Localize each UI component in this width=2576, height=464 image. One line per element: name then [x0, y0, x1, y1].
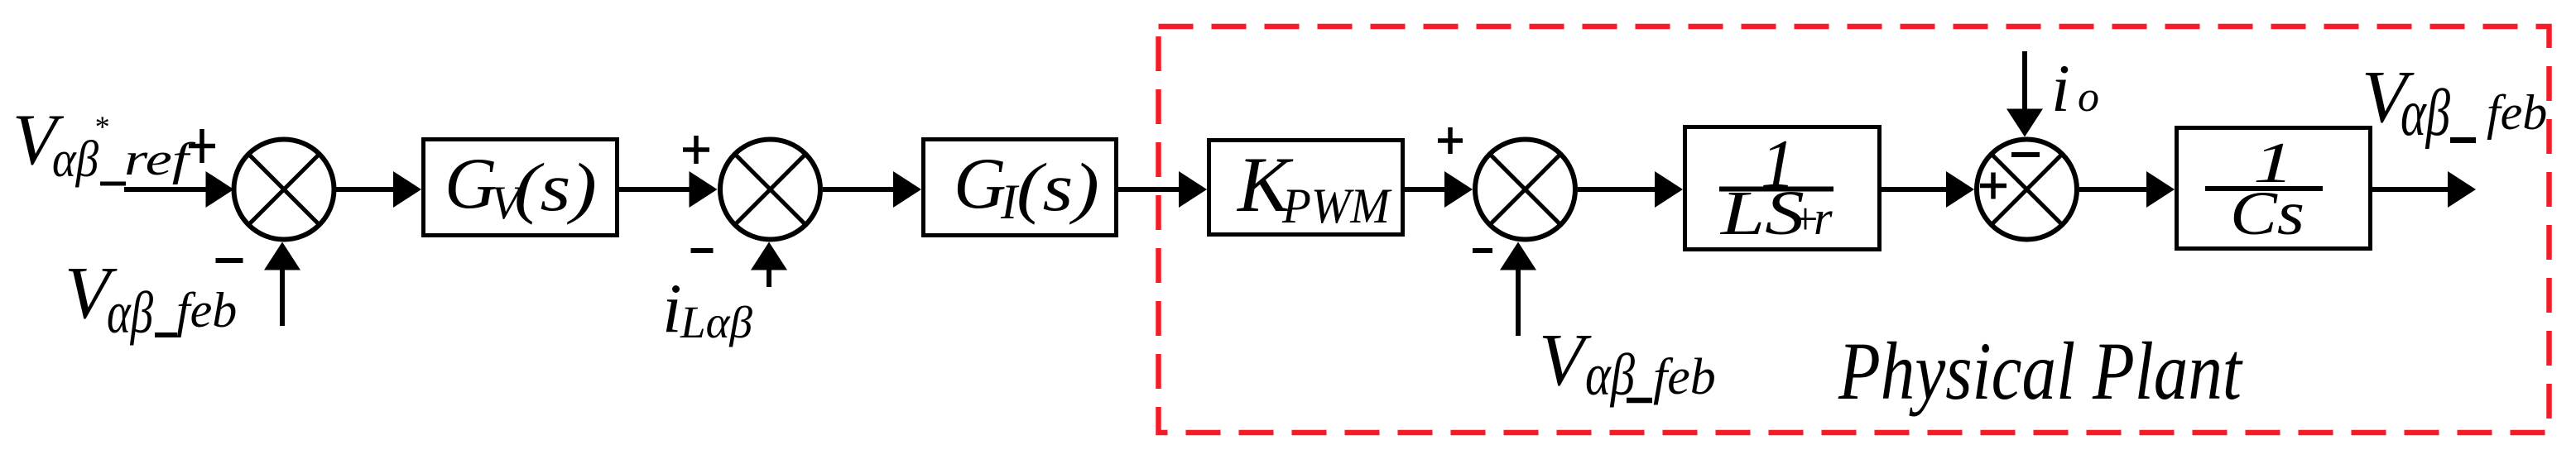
minus sign at summing junction 3 — [1473, 248, 1492, 253]
plus sign at summing junction 3 — [1438, 138, 1463, 143]
node io label — [2051, 50, 2099, 126]
svg-text:PWM: PWM — [1281, 179, 1392, 233]
svg-text:Physical Plant: Physical Plant — [1838, 325, 2243, 417]
svg-text:αβ: αβ — [2401, 77, 2450, 150]
svg-text:(s): (s) — [514, 149, 597, 225]
svg-text:i: i — [2051, 50, 2070, 126]
svg-text:feb: feb — [2487, 85, 2547, 140]
svg-text:*: * — [94, 110, 108, 143]
summing junction S4 — [1977, 140, 2077, 240]
summing junction S3 — [1475, 140, 1575, 240]
svg-text:αβ: αβ — [52, 132, 99, 188]
svg-text:feb: feb — [176, 283, 237, 337]
svg-text:(s): (s) — [1016, 149, 1099, 225]
svg-text:Cs: Cs — [2230, 179, 2304, 248]
wire S1 to GV — [336, 171, 421, 208]
block GI(s) — [924, 140, 1117, 236]
wire io into S4 top — [2006, 51, 2043, 137]
summing junction S1 — [234, 140, 334, 240]
wire Vαβ_feb into S3 bottom — [1500, 242, 1536, 337]
block GV(s) — [424, 140, 618, 236]
block KPWM — [1209, 141, 1403, 235]
node Vαβ_feb feedback label (left) — [65, 252, 237, 346]
svg-text:ref: ref — [124, 134, 197, 185]
wire iLαβ into S2 bottom — [751, 242, 787, 288]
wire S2 to GI — [823, 171, 921, 208]
minus sign at summing junction 2 — [691, 248, 714, 253]
node Vαβ_feb output label — [2362, 56, 2547, 150]
dashed boundary: Physical Plant region — [1159, 26, 2550, 433]
node Vαβ_ref* input label — [12, 100, 197, 188]
svg-text:i: i — [662, 270, 682, 347]
wire output — [2372, 171, 2476, 208]
node Vαβ_feb label (middle) — [1539, 319, 1716, 408]
wire feedback into S1 bottom — [264, 242, 300, 327]
wire S4 to 1/Cs — [2079, 171, 2175, 208]
svg-text:αβ: αβ — [107, 280, 153, 346]
plus sign at summing junction 1 — [189, 144, 215, 149]
svg-text:o: o — [2078, 74, 2099, 121]
wire 1/(LS+r) to S4 — [1882, 171, 1974, 208]
svg-text:G: G — [445, 144, 497, 224]
svg-text:V: V — [1539, 319, 1592, 401]
minus sign at summing junction 1 — [216, 258, 243, 263]
node iLαβ label — [662, 270, 752, 347]
svg-text:Lαβ: Lαβ — [680, 297, 752, 347]
plus sign inside S4 left — [1980, 184, 2006, 189]
svg-text:feb: feb — [1653, 349, 1716, 405]
svg-text:r: r — [1814, 191, 1833, 245]
wire GV to S2 — [619, 171, 718, 208]
block 1/(LS+r) — [1685, 126, 1880, 250]
svg-text:G: G — [954, 144, 1007, 224]
wire input — [124, 171, 234, 208]
wire KPWM to S3 — [1405, 171, 1473, 208]
wire GI to KPWM — [1118, 171, 1207, 208]
wire S3 to 1/(LS+r) — [1578, 171, 1683, 208]
plus sign at summing junction 2 — [683, 147, 709, 152]
minus sign inside S4 top — [2011, 152, 2040, 157]
block 1/Cs — [2177, 128, 2371, 249]
summing junction S2 — [720, 140, 820, 240]
